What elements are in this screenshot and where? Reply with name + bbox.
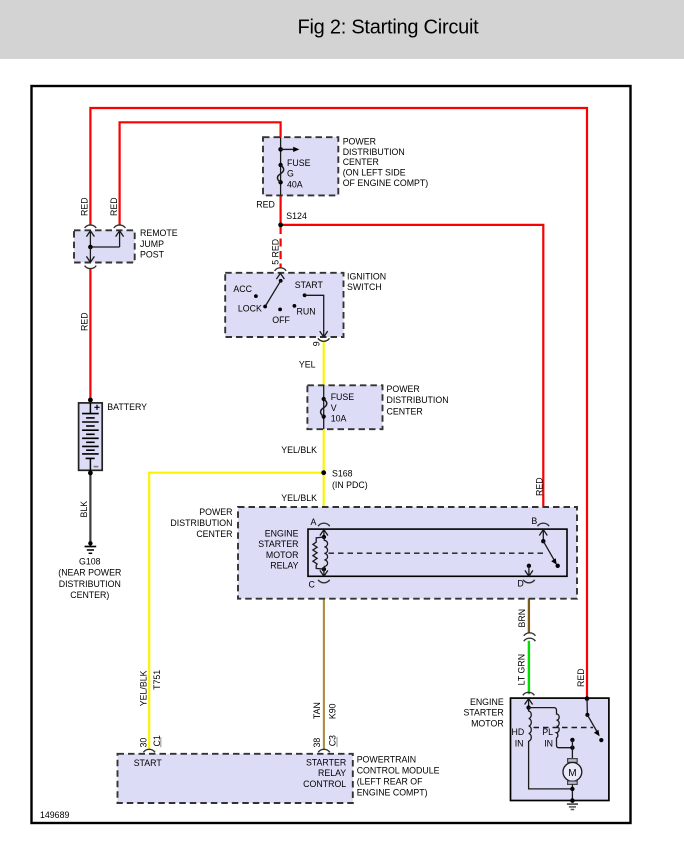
- connector arc: jump post entry 2: [114, 225, 126, 228]
- relay switch: pin B stem: [539, 530, 547, 542]
- svg-text:RED: RED: [109, 197, 119, 216]
- wire RED branch: jump post to fuse G: [120, 122, 281, 224]
- svg-text:DISTRIBUTION: DISTRIBUTION: [170, 518, 232, 528]
- svg-text:RED: RED: [535, 477, 545, 496]
- svg-text:DISTRIBUTION: DISTRIBUTION: [343, 147, 405, 157]
- svg-text:BLK: BLK: [79, 501, 89, 518]
- relay switch arm: [543, 541, 555, 561]
- wire YEL/BLK: fuse V to node S168 to relay pin A: [323, 429, 325, 524]
- wire LT GRN: inline connector to starter motor: [528, 641, 530, 694]
- svg-text:K90: K90: [327, 703, 337, 719]
- svg-text:JUMP: JUMP: [140, 239, 164, 249]
- pin arrow exit: [320, 330, 328, 337]
- svg-text:BATTERY: BATTERY: [107, 402, 147, 412]
- svg-text:V: V: [331, 403, 337, 413]
- svg-text:ACC: ACC: [233, 284, 252, 294]
- pin arrow entry 1: [86, 231, 94, 247]
- svg-text:POWER: POWER: [387, 384, 420, 394]
- svg-text:(ON LEFT SIDE: (ON LEFT SIDE: [343, 168, 406, 178]
- wire YEL: ignition switch to fuse V: [323, 341, 325, 386]
- pin arrow exit: [86, 247, 94, 262]
- svg-text:(IN PDC): (IN PDC): [332, 480, 368, 490]
- svg-text:B: B: [531, 516, 537, 526]
- svg-text:TAN: TAN: [312, 702, 322, 719]
- svg-text:POWERTRAIN: POWERTRAIN: [357, 754, 416, 764]
- fuse box F-G (power distribution center): [263, 137, 338, 195]
- svg-text:DISTRIBUTION: DISTRIBUTION: [59, 579, 121, 589]
- svg-text:CENTER: CENTER: [343, 157, 379, 167]
- label: remote jump post: [140, 228, 178, 259]
- label: power distribution center (fuse G): [343, 136, 429, 188]
- svg-text:HD: HD: [511, 727, 524, 737]
- svg-text:C3: C3: [327, 735, 337, 746]
- wire RED battery trunk: battery top to jump post: [89, 268, 91, 400]
- junction dot: [88, 245, 93, 250]
- label: engine starter motor: [463, 697, 503, 728]
- wire RED trunk: jump post top to starter motor (top rail): [90, 108, 587, 699]
- MAIN WIRES: [90, 108, 587, 750]
- mechanical linkage (dashed): [329, 552, 545, 554]
- svg-text:STARTER: STARTER: [306, 757, 346, 767]
- remote jump post: [74, 225, 135, 269]
- svg-text:ENGINE COMPT): ENGINE COMPT): [357, 787, 428, 797]
- svg-text:RELAY: RELAY: [270, 561, 298, 571]
- wire BLK: battery negative to ground G108: [89, 473, 91, 543]
- connector arc: ignition exit: [318, 338, 330, 341]
- ground (starter motor case): [567, 804, 578, 809]
- svg-text:RED: RED: [256, 200, 275, 210]
- svg-text:G: G: [287, 169, 294, 179]
- power distribution center relay enclosure: [238, 507, 577, 599]
- node S124: [278, 223, 283, 228]
- svg-text:ENGINE: ENGINE: [470, 697, 504, 707]
- svg-text:CENTER): CENTER): [70, 590, 109, 600]
- svg-text:FUSE: FUSE: [287, 158, 311, 168]
- svg-text:SWITCH: SWITCH: [347, 282, 382, 292]
- svg-text:(LEFT REAR OF: (LEFT REAR OF: [357, 776, 423, 786]
- connector arc: pin A entry: [318, 523, 330, 526]
- svg-text:M: M: [568, 768, 576, 779]
- inline connector (BRN to LT GRN): [524, 633, 536, 641]
- contact dot LOCK: [263, 305, 267, 309]
- solenoid switch arm: [587, 715, 597, 733]
- wire: START contact to output pin: [305, 295, 324, 331]
- label: engine starter motor relay: [258, 529, 298, 571]
- svg-text:A: A: [311, 517, 317, 527]
- wire: HD winding to motor return: [529, 741, 573, 789]
- battery: [79, 398, 103, 476]
- svg-text:DISTRIBUTION: DISTRIBUTION: [387, 395, 449, 405]
- wire YEL/BLK: node S168 left and down to PCM START pin: [149, 473, 324, 750]
- wire: feed arrow to other circuits: [281, 148, 295, 150]
- svg-text:POWER: POWER: [343, 136, 376, 146]
- powertrain control module: [118, 749, 353, 803]
- connector arc: pin C exit: [318, 580, 330, 583]
- contact dot START: [303, 293, 307, 297]
- svg-text:ENGINE: ENGINE: [265, 529, 299, 539]
- svg-text:REMOTE: REMOTE: [140, 228, 178, 238]
- svg-text:OF ENGINE COMPT): OF ENGINE COMPT): [343, 178, 429, 188]
- fuse G element: [278, 163, 282, 167]
- label: ground G108: [58, 556, 121, 600]
- svg-text:T751: T751: [152, 670, 162, 690]
- svg-text:D: D: [517, 579, 523, 589]
- svg-text:S124: S124: [286, 211, 307, 221]
- svg-text:START: START: [295, 280, 324, 290]
- label: powertrain control module: [357, 754, 440, 797]
- svg-text:YEL/BLK: YEL/BLK: [281, 445, 317, 455]
- battery plates: [82, 414, 99, 459]
- svg-text:IGNITION: IGNITION: [347, 271, 386, 281]
- ignition switch SW1: [225, 268, 343, 342]
- label: power distribution center (fuse V): [387, 384, 449, 417]
- connector arc: ignition entry: [275, 268, 287, 271]
- svg-text:STARTER: STARTER: [258, 539, 298, 549]
- hold-in winding HD IN: [529, 708, 532, 741]
- relay body: [308, 529, 567, 576]
- svg-text:MOTOR: MOTOR: [266, 550, 299, 560]
- svg-text:CENTER: CENTER: [196, 529, 232, 539]
- engine starter motor relay K1: [308, 516, 567, 590]
- svg-text:RELAY: RELAY: [318, 768, 346, 778]
- contact dot OFF: [278, 308, 282, 312]
- svg-text:START: START: [134, 758, 163, 768]
- pin arrow entry: [276, 273, 284, 279]
- plus sign: [94, 405, 99, 410]
- relay coil with parallel resistor: [322, 535, 326, 539]
- svg-text:IN: IN: [544, 738, 553, 748]
- svg-text:5 RED: 5 RED: [271, 239, 281, 265]
- pin arrow entry 2: [116, 231, 124, 247]
- wire TAN K90: relay pin C to PCM starter relay control: [323, 584, 325, 750]
- wire 5 RED dashed: node S124 to ignition switch: [280, 226, 282, 268]
- svg-text:149689: 149689: [40, 810, 69, 820]
- svg-text:Fig 2: Starting Circuit: Fig 2: Starting Circuit: [298, 16, 480, 38]
- svg-text:STARTER: STARTER: [463, 708, 503, 718]
- motor feed junctions: [570, 738, 574, 742]
- svg-text:S168: S168: [332, 468, 353, 478]
- connector arc: pin B entry: [538, 523, 550, 526]
- svg-text:OFF: OFF: [272, 315, 290, 325]
- svg-text:38: 38: [312, 738, 322, 748]
- pin C arrow: [320, 569, 328, 576]
- label: power distribution center (relay): [170, 507, 232, 539]
- connector arc: pin D exit: [523, 580, 535, 583]
- svg-text:RED: RED: [576, 668, 586, 687]
- svg-text:CONTROL MODULE: CONTROL MODULE: [357, 765, 440, 775]
- ground G108: [85, 541, 97, 553]
- switch arm (LOCK position): [279, 279, 283, 283]
- connector arc: jump post entry 1: [85, 225, 97, 228]
- resistor branch: [313, 537, 324, 569]
- svg-text:9: 9: [312, 341, 322, 346]
- fixed contact dot: [556, 564, 560, 568]
- engine starter motor: [511, 692, 609, 803]
- svg-text:40A: 40A: [287, 179, 303, 189]
- svg-text:LT GRN: LT GRN: [517, 654, 527, 685]
- wire: internal bus: [90, 246, 119, 248]
- svg-text:10A: 10A: [331, 414, 347, 424]
- svg-text:(NEAR POWER: (NEAR POWER: [58, 568, 121, 578]
- svg-text:RUN: RUN: [297, 307, 316, 317]
- minus sign: [94, 466, 99, 468]
- solenoid contact dot: [599, 738, 603, 742]
- fuse box F-V (power distribution center): [307, 385, 382, 429]
- connector arc: jump post exit: [85, 266, 97, 269]
- node S168: [321, 470, 326, 475]
- wire: motor to ground: [571, 784, 573, 800]
- svg-text:YEL/BLK: YEL/BLK: [138, 670, 148, 706]
- node: fuse G feed junction: [278, 147, 283, 152]
- svg-text:PL: PL: [542, 727, 553, 737]
- svg-text:MOTOR: MOTOR: [471, 718, 504, 728]
- pin A arrow: [320, 530, 328, 537]
- pin D contact and arrow: [527, 564, 531, 568]
- label: ignition switch: [347, 271, 386, 292]
- svg-text:CENTER: CENTER: [387, 406, 423, 416]
- coil branch: [324, 537, 328, 569]
- wire BRN: relay pin D to inline connector: [528, 584, 530, 634]
- node: battery negative terminal: [88, 471, 93, 476]
- svg-text:POST: POST: [140, 249, 165, 259]
- svg-text:30: 30: [138, 738, 148, 748]
- svg-text:CONTROL: CONTROL: [303, 779, 346, 789]
- connector arc: starter solenoid entry: [523, 692, 535, 695]
- diagram frame: [32, 86, 631, 823]
- svg-text:POWER: POWER: [199, 507, 232, 517]
- title bar: [0, 0, 684, 59]
- pin name STARTER RELAY CONTROL: [303, 757, 346, 788]
- svg-text:LOCK: LOCK: [238, 304, 262, 314]
- mechanical linkage (dashed): [534, 727, 594, 729]
- pull-in winding PL IN: [529, 708, 573, 748]
- motor M1: [568, 759, 578, 763]
- svg-text:IN: IN: [515, 738, 524, 748]
- node: battery positive terminal: [88, 398, 93, 403]
- solenoid switch: supply junction: [585, 696, 590, 701]
- svg-text:FUSE: FUSE: [331, 392, 355, 402]
- svg-text:RED: RED: [80, 197, 90, 216]
- fuse V element: [322, 397, 326, 401]
- svg-text:RED: RED: [80, 312, 90, 331]
- svg-text:YEL: YEL: [299, 360, 316, 370]
- connector arc: PCM pin 38 entry: [318, 749, 330, 752]
- contact dot RUN: [293, 304, 297, 308]
- svg-text:C: C: [309, 580, 316, 590]
- svg-text:BRN: BRN: [517, 609, 527, 628]
- contact dot ACC: [254, 294, 258, 298]
- connector arc: PCM pin 30 entry: [143, 749, 155, 752]
- svg-text:G108: G108: [79, 556, 101, 566]
- wire RED: fuse G to node S124: [280, 196, 282, 225]
- wire RED: node S124 to relay pin B: [281, 225, 544, 524]
- svg-text:YEL/BLK: YEL/BLK: [281, 493, 317, 503]
- pin arrow entry: [525, 699, 533, 708]
